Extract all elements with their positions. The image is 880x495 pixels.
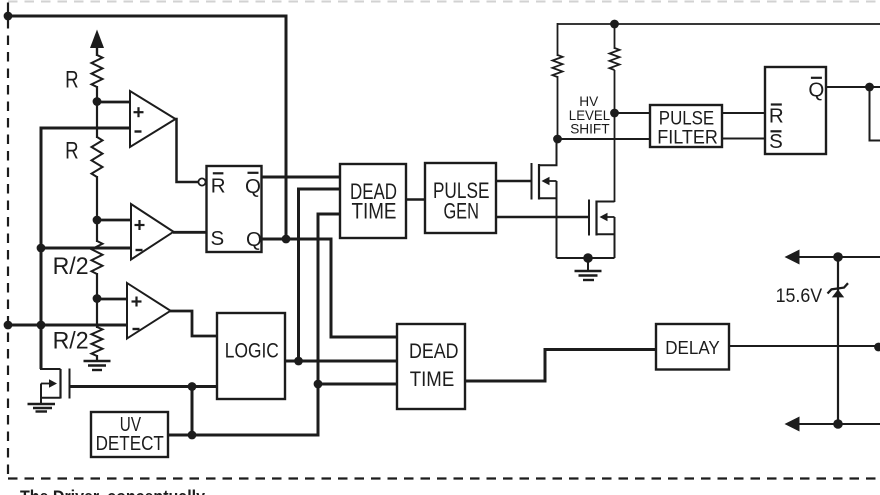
label R (second resistor) [65, 138, 79, 165]
node level-shift left (Vb side) [553, 135, 562, 144]
wire Qbar branch down to output stage [870, 87, 880, 141]
ground (ladder) [84, 361, 111, 370]
label TIME (upper) [352, 198, 397, 223]
op-amp U2 (middle comparator) [131, 204, 174, 260]
label HV LEVEL SHIFT [569, 93, 611, 137]
node UV bus / lower DEAD TIME branch [314, 380, 323, 389]
wire U4 Qbar to upper DEAD TIME input 1 [262, 176, 341, 179]
block UV DETECT box [91, 412, 168, 457]
label PULSE [433, 178, 490, 203]
wire CT bus vertical with branch to U1 - [41, 128, 130, 369]
wire R6 to M2 drain [614, 70, 616, 202]
svg-text:S: S [211, 227, 225, 250]
pin label Q (U4) [246, 228, 262, 251]
svg-text:R/2: R/2 [53, 253, 89, 280]
label FILTER [657, 128, 718, 149]
resistor R6 (right pull-up) [610, 48, 620, 70]
wire R5 to level-shift node [557, 76, 559, 140]
wire DEAD TIME to PULSE GEN [406, 198, 425, 200]
node DELAY output at edge [874, 343, 880, 352]
wire CT bus to comparator U2 - input [41, 247, 131, 250]
label DEAD (upper) [350, 179, 397, 204]
wire level-shift node to PULSE FILTER lower input [558, 138, 651, 140]
wire U2 output to RS latch S input [173, 231, 207, 234]
block DELAY box [656, 324, 729, 370]
wire CT pin to comparator U3 - input [8, 324, 127, 327]
block PULSE FILTER box [650, 105, 722, 147]
node LOGIC output junction [294, 357, 303, 366]
IC outline dashed border (bottom) [8, 477, 880, 479]
node CT bus / U2 - branch [37, 244, 46, 253]
resistor R (top) [92, 55, 103, 87]
label R/2 (third resistor) [53, 253, 89, 280]
node on left border (top rail pin) [4, 12, 13, 21]
wire HV rail (top right) [558, 23, 880, 25]
wire Vcc arrow at ladder top [90, 30, 104, 57]
label DETECT [96, 433, 164, 455]
pin label Q-bar (U5) [808, 78, 824, 102]
svg-text:15.6V: 15.6V [776, 286, 823, 307]
node Q output / top rail junction [282, 235, 291, 244]
label GEN [443, 199, 479, 224]
caption text (cropped at bottom) [20, 487, 205, 495]
wire node to PULSE FILTER upper input [615, 112, 651, 114]
node Qbar output branch [865, 83, 874, 92]
svg-text:R: R [65, 66, 79, 93]
resistor R6 (right pull-up) leads [614, 24, 616, 49]
wire PULSE FILTER to U5 Sbar input [722, 138, 765, 140]
wire tap3 to comparator U3 + input [97, 298, 127, 301]
wire ladder to ground [96, 355, 98, 361]
svg-text:Q: Q [245, 175, 261, 198]
label UV [120, 414, 142, 436]
wire PULSE GEN output 2 to M2 gate [496, 216, 589, 219]
resistor R5 (left pull-up) [553, 55, 563, 77]
resistor R (second) [92, 137, 103, 177]
node clamp top [833, 252, 843, 262]
svg-text:LOGIC: LOGIC [225, 339, 279, 363]
node source rail / ground [583, 253, 593, 263]
IC outline dashed border (left) [7, 3, 9, 479]
op-amp U3 (bottom comparator) [127, 283, 171, 339]
node ladder tap 1 [93, 97, 102, 106]
wire gate junction down to UV bus [191, 387, 194, 436]
svg-text:TIME: TIME [352, 198, 397, 223]
label LOGIC [225, 339, 279, 363]
label R/2 (fourth resistor) [53, 328, 89, 355]
svg-text:R: R [769, 104, 784, 127]
IC outline dashed border (top, faint in scan) [8, 1, 880, 3]
wire U3 output to LOGIC [170, 311, 217, 336]
label DELAY [665, 337, 720, 358]
label R (top resistor) [65, 66, 79, 93]
wire tap1 to comparator U1 + input [97, 101, 130, 104]
wire M1/M2 common source rail [557, 257, 615, 259]
wire PULSE FILTER to U5 Rbar input [722, 112, 765, 114]
svg-text:DEAD: DEAD [409, 339, 459, 363]
node CT bus / CT pin junction [37, 321, 46, 330]
node ladder tap 3 [93, 294, 102, 303]
node ladder tap 2 [93, 216, 102, 225]
resistor R/2 (third) [92, 241, 103, 274]
wire PULSE GEN output 1 to M1 gate [496, 180, 532, 183]
svg-text:Q: Q [808, 79, 824, 102]
block lower DEAD TIME box [397, 324, 465, 409]
wire UV bus branch to lower DEAD TIME input 3 [318, 383, 397, 386]
ground (level shift) [575, 258, 602, 280]
wire clamp bottom rail with pin arrow [785, 417, 880, 432]
node clamp bottom [833, 419, 843, 429]
block LOGIC box [217, 313, 285, 399]
label 15.6V [776, 286, 823, 307]
wire tap2 to comparator U2 + input [97, 219, 131, 222]
transistor M2 (lower level-shift MOSFET) [589, 200, 615, 259]
wire ladder segment 2 [96, 176, 98, 242]
pin label R-bar (U4) [211, 173, 226, 197]
node HV rail / pull-up resistor 2 [610, 20, 619, 29]
svg-text:GEN: GEN [443, 199, 479, 224]
wire upper DEAD TIME input 2 from LOGIC output bus [299, 189, 341, 361]
wire Vcc top rail to Q junction [8, 16, 286, 239]
svg-text:R: R [65, 138, 79, 165]
svg-text:R: R [211, 174, 226, 197]
node UV bus / gate-wire junction [188, 431, 197, 440]
svg-text:Q: Q [246, 228, 262, 251]
svg-text:The Driver, conceptually: The Driver, conceptually [20, 487, 205, 495]
RS flip-flop U4 box [207, 166, 262, 252]
svg-text:R/2: R/2 [53, 328, 89, 355]
wire zener column [837, 257, 839, 425]
pin label R-bar (U5) [769, 104, 784, 127]
pin label S-bar (U5) [769, 130, 783, 153]
wire U5 Qbar output to right edge [826, 86, 880, 88]
wire U1 output to RS latch R input bubble [175, 119, 199, 182]
wire ladder segment 3 [96, 273, 98, 328]
wire M3 gate to LOGIC [71, 385, 218, 388]
transistor M3 body [41, 369, 70, 405]
wire Vcc clamp top rail with pin arrow [785, 250, 880, 265]
svg-text:S: S [769, 130, 783, 153]
wire U4 Q output to lower DEAD TIME input 1 [262, 239, 398, 337]
node gate wire / UV bus [188, 382, 197, 391]
resistor R/2 (fourth) [92, 327, 103, 356]
wire ladder segment 1 [96, 86, 98, 138]
wire LOGIC output to lower DEAD TIME input 2 [285, 360, 397, 363]
pin label Q-bar (U4) [245, 173, 261, 198]
svg-text:DETECT: DETECT [96, 433, 164, 455]
transistor M3 (CT discharge MOSFET) drain from CT bus [41, 325, 61, 369]
label TIME (lower) [410, 367, 455, 391]
pin label S (U4) [211, 227, 225, 250]
node CT pin on border [4, 321, 13, 330]
node level-shift right [610, 109, 619, 118]
block upper DEAD TIME box [340, 164, 406, 238]
wire DELAY output to right edge [729, 345, 880, 347]
svg-text:FILTER: FILTER [657, 128, 718, 149]
wire rail corner into resistor R5 [557, 23, 559, 56]
svg-text:TIME: TIME [410, 367, 455, 391]
label DEAD (lower) [409, 339, 459, 363]
label PULSE (filter) [659, 109, 714, 130]
transistor M1 (upper level-shift MOSFET) [532, 139, 557, 258]
RS flip-flop U5 box [765, 67, 826, 154]
ground (M3 source) [28, 404, 56, 412]
svg-text:DELAY: DELAY [665, 337, 720, 358]
svg-text:PULSE: PULSE [659, 109, 714, 130]
inverter bubble on RS latch 1 R input [198, 178, 205, 185]
wire upper DEAD TIME input 3 / UV bus [168, 214, 340, 435]
op-amp U1 (top comparator) [130, 91, 176, 147]
zener diode D1 15.6V [828, 283, 849, 297]
svg-text:SHIFT: SHIFT [570, 121, 610, 137]
wire lower DEAD TIME output to DELAY [465, 350, 656, 382]
block PULSE GEN box [425, 163, 496, 233]
